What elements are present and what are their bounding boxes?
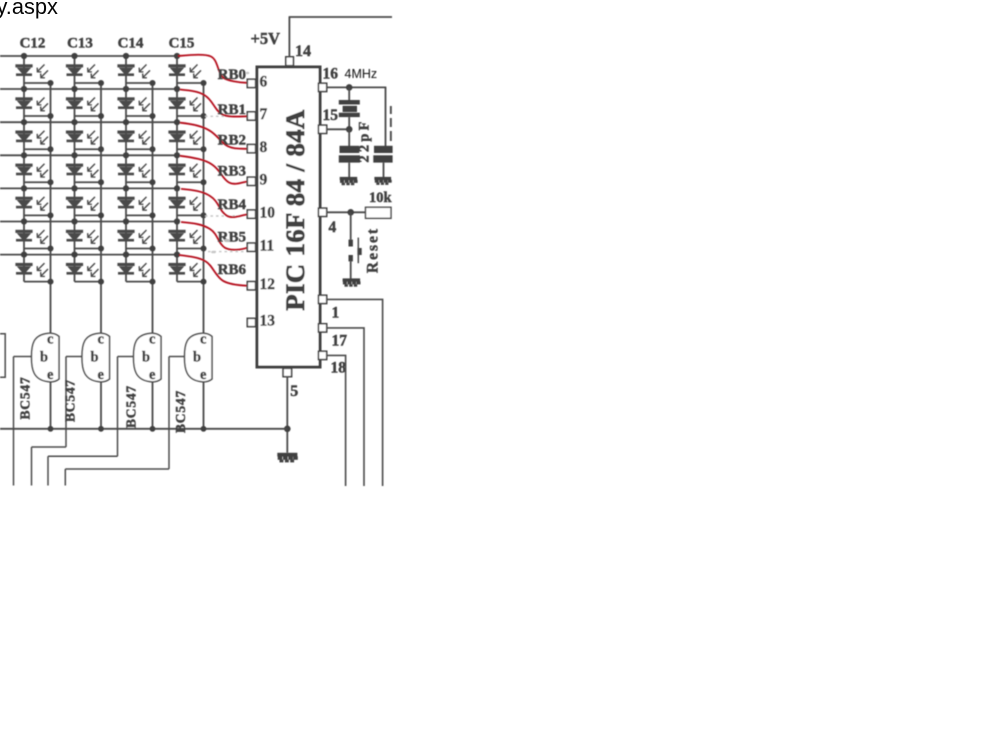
LED matrix row 2 column C13 [66, 86, 104, 119]
pin 8 stub [247, 144, 255, 152]
svg-text:13: 13 [260, 313, 276, 330]
svg-text:b: b [40, 350, 48, 366]
LED matrix row 2 column C12 [15, 86, 53, 119]
capacitor C2 22pF [373, 146, 392, 163]
LED matrix row 6 column C14 [117, 218, 155, 251]
wire +5V top rail [289, 16, 392, 18]
wire row 4 (horizontal bus) [0, 154, 179, 156]
svg-text:C14: C14 [118, 36, 144, 52]
faint erased wire remnant (pin 11 row) [208, 251, 246, 253]
wire column C15 cathode bus [203, 83, 205, 335]
LED matrix row 2 column C15 [168, 86, 206, 119]
svg-text:12: 12 [260, 276, 276, 293]
svg-text:Reset: Reset [365, 227, 382, 273]
pin 18 stub [318, 351, 326, 359]
transistor Q2 BC547 [82, 333, 110, 382]
transistor Q1 BC547 [32, 333, 60, 382]
node pin5 / emitter rail junction [284, 426, 291, 433]
LED matrix row 1 column C14 [117, 53, 155, 86]
wire row 3 (horizontal bus) [0, 121, 179, 123]
wire row 7 (horizontal bus) [0, 254, 179, 256]
IC U1 PIC 16F84/84A body [257, 67, 320, 367]
svg-text:8: 8 [260, 139, 268, 156]
LED matrix row 7 column C14 [117, 252, 155, 285]
wire column C14 anode line [125, 56, 127, 282]
wire pin4 to reset node [327, 211, 366, 213]
capacitor C1 22pF [339, 146, 360, 163]
LED matrix row 6 column C13 [66, 218, 104, 251]
pin 1 stub [318, 295, 326, 303]
cut-off label fragment at scan edge [390, 106, 392, 141]
wire RB4 red rewire curve [181, 189, 247, 217]
pin 16 stub [318, 83, 326, 91]
svg-text:RB4: RB4 [218, 197, 247, 213]
LED matrix row 2 column C14 [117, 86, 155, 119]
cut-off component at left scan edge [0, 334, 5, 378]
pin 14 stub [286, 57, 294, 66]
svg-text:18: 18 [331, 360, 347, 377]
wire row 5 (horizontal bus) [0, 187, 179, 189]
svg-text:4MHz: 4MHz [345, 67, 378, 81]
ground below reset button [343, 278, 361, 286]
svg-text:15: 15 [323, 107, 339, 124]
svg-text:RB6: RB6 [218, 262, 247, 278]
wire button to ground [350, 261, 352, 278]
node reset junction [347, 209, 354, 216]
svg-text:RB5: RB5 [218, 229, 246, 245]
LED matrix row 5 column C15 [168, 185, 206, 218]
faint scan smudge right of RB0 [246, 72, 250, 74]
LED matrix row 1 column C12 [15, 53, 53, 86]
crystal X1 4MHz [339, 100, 360, 117]
wire row 2 (horizontal bus) [0, 88, 179, 90]
node pin15 junction [346, 126, 353, 133]
LED matrix row 3 column C13 [66, 119, 104, 152]
LED matrix row 4 column C12 [15, 152, 53, 185]
LED matrix row 5 column C13 [66, 185, 104, 218]
faint erased wire remnant (pin 7 row) [205, 115, 244, 117]
wire Q1 base route [14, 356, 32, 358]
LED matrix row 7 column C13 [66, 252, 104, 285]
LED matrix row 3 column C14 [117, 119, 155, 152]
svg-text:22pF: 22pF [357, 118, 373, 162]
wire common emitter rail [0, 428, 287, 430]
svg-text:RB1: RB1 [218, 102, 246, 118]
pin 10 stub [247, 210, 255, 218]
svg-text:9: 9 [260, 172, 268, 189]
LED matrix row 5 column C12 [15, 185, 53, 218]
ground below pin 5 [277, 453, 298, 463]
svg-text:RB0: RB0 [218, 67, 246, 83]
ground below C1 [340, 177, 358, 185]
pin 13 stub [247, 318, 255, 326]
svg-text:10k: 10k [369, 190, 393, 206]
wire Q4 emitter to rail [203, 382, 205, 429]
wire row 1 (horizontal bus) [0, 55, 179, 57]
pin 11 stub [247, 243, 255, 251]
LED matrix row 5 column C14 [117, 185, 155, 218]
wire RB6 red rewire curve [179, 255, 247, 286]
svg-text:6: 6 [260, 74, 268, 91]
svg-text:11: 11 [260, 237, 275, 254]
pin 4 stub [318, 208, 326, 216]
wire column C14 cathode bus [152, 83, 154, 335]
wire pin15 to node [327, 128, 350, 130]
svg-text:5: 5 [290, 383, 298, 400]
wire RB0 red rewire curve [178, 55, 247, 83]
wire RB2 red rewire curve [180, 123, 247, 149]
wire RB1 red rewire curve [180, 90, 247, 117]
LED matrix row 4 column C14 [117, 152, 155, 185]
faint erased wire remnant (pin 10 row) [205, 215, 240, 217]
pin 12 stub [247, 282, 255, 290]
svg-text:1: 1 [332, 305, 340, 322]
pin 15 stub [318, 125, 326, 133]
svg-text:RB2: RB2 [218, 132, 246, 148]
LED matrix row 7 column C15 [168, 252, 206, 285]
wire pin 18 down right side [327, 355, 346, 486]
svg-text:b: b [91, 350, 99, 366]
svg-text:y.aspx: y.aspx [0, 0, 58, 19]
transistor Q4 BC547 [185, 333, 213, 382]
wire Q3 emitter to rail [152, 382, 154, 429]
wire node to crystal [348, 87, 350, 100]
wire Q2 base route [66, 356, 82, 358]
svg-text:14: 14 [295, 43, 311, 60]
svg-text:C13: C13 [67, 36, 93, 52]
LED matrix row 3 column C15 [168, 119, 206, 152]
svg-text:c: c [47, 332, 54, 348]
svg-text:b: b [142, 350, 150, 366]
LED matrix row 7 column C12 [15, 252, 53, 285]
LED matrix row 1 column C15 [168, 53, 206, 86]
wire Q2 emitter to rail [100, 382, 102, 429]
LED matrix row 6 column C15 [168, 218, 206, 251]
LED matrix row 6 column C12 [15, 218, 53, 251]
pin 17 stub [318, 324, 326, 332]
wire RB3 red rewire curve [180, 156, 247, 184]
svg-text:BC547: BC547 [173, 390, 188, 433]
wire pin16 to crystal node [327, 86, 387, 88]
wire Q3 base route [118, 356, 134, 358]
wire row 6 (horizontal bus) [0, 221, 179, 223]
svg-text:BC547: BC547 [123, 385, 138, 428]
wire pin 1 down right side [327, 299, 383, 486]
wire column C15 anode line [176, 56, 178, 282]
pin 9 stub [247, 177, 255, 185]
wire crystal node down to C2 [385, 87, 387, 146]
pin 7 stub [247, 112, 255, 120]
svg-text:17: 17 [332, 333, 348, 350]
svg-text:C15: C15 [169, 36, 195, 52]
wire crystal to pin15 node [348, 117, 350, 129]
transistor Q3 BC547 [134, 333, 162, 382]
wire node to capacitor C1 [348, 129, 350, 146]
node Q3 emitter junction [150, 426, 156, 432]
svg-text:c: c [200, 332, 207, 348]
svg-text:PIC 16F 84 / 84A: PIC 16F 84 / 84A [280, 109, 310, 310]
LED matrix row 3 column C12 [15, 119, 53, 152]
pin 6 stub [247, 79, 255, 87]
LED matrix row 1 column C13 [66, 53, 104, 86]
svg-text:4: 4 [329, 219, 337, 236]
wire RB5 red rewire curve [181, 222, 247, 250]
svg-text:BC547: BC547 [63, 379, 78, 422]
node Q1 emitter junction [48, 426, 54, 432]
svg-text:b: b [193, 350, 201, 366]
node crystal top junction [346, 84, 353, 91]
faint scan smudge near RB5 [224, 239, 230, 242]
svg-text:C12: C12 [20, 36, 46, 52]
push button SW1 Reset [349, 240, 362, 262]
wire column C12 anode line [23, 56, 25, 282]
svg-text:BC547: BC547 [18, 376, 33, 419]
svg-text:7: 7 [260, 106, 268, 123]
ground below C2 [374, 177, 391, 185]
wire C1 to ground [348, 163, 350, 178]
wire pin 17 down right side [327, 328, 364, 486]
LED matrix row 4 column C15 [168, 152, 206, 185]
svg-text:16: 16 [323, 65, 339, 82]
faint scan smudge near pin 11 [211, 251, 216, 254]
wire Q4 base route [169, 356, 185, 358]
wire column C13 anode line [74, 56, 76, 282]
wire C2 to ground [383, 163, 385, 178]
svg-text:e: e [149, 367, 156, 383]
svg-text:e: e [98, 367, 105, 383]
wire column C13 cathode bus [100, 83, 102, 335]
svg-text:+5V: +5V [251, 29, 281, 48]
svg-text:e: e [47, 367, 54, 383]
node Q4 emitter junction [201, 426, 207, 432]
wire node to push button [350, 212, 352, 239]
svg-text:c: c [98, 332, 105, 348]
svg-text:e: e [200, 367, 207, 383]
wire +5V to pin 14 [288, 17, 290, 57]
wire Q1 emitter to rail [50, 382, 52, 429]
wire column C12 cathode bus [50, 83, 52, 335]
svg-text:c: c [149, 332, 156, 348]
LED matrix row 4 column C13 [66, 152, 104, 185]
wire pin 5 to ground [286, 377, 288, 453]
svg-text:RB3: RB3 [218, 163, 246, 179]
svg-text:10: 10 [260, 204, 276, 221]
node Q2 emitter junction [98, 426, 104, 432]
pin 5 stub [283, 368, 292, 376]
resistor R1 10k [366, 207, 392, 218]
